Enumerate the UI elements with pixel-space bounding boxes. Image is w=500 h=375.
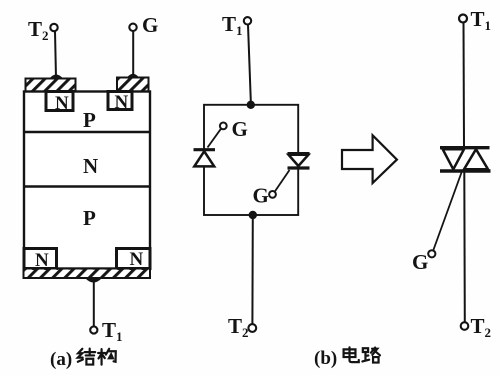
junction line N/P xyxy=(24,185,150,187)
triac symbol xyxy=(440,148,491,171)
caption glyph 电 xyxy=(344,347,359,362)
thyristor V2 (right, conducts down) xyxy=(288,154,310,168)
contact bump G xyxy=(127,74,139,78)
wire G to electrode xyxy=(132,31,134,77)
caption glyph 构 xyxy=(98,349,116,365)
svg-text:N: N xyxy=(130,249,144,270)
terminal T1 circle (symbol) xyxy=(459,15,467,23)
wire T2 to electrode xyxy=(55,32,56,79)
junction line P/N xyxy=(24,131,150,133)
svg-text:P: P xyxy=(83,108,96,132)
wire T1 to triac xyxy=(463,23,466,147)
circuit loop box xyxy=(204,105,298,215)
N-well bottom-left xyxy=(24,249,57,269)
terminal T2 circle (symbol) xyxy=(461,322,469,330)
gate G1 circle xyxy=(220,123,227,130)
wire node to T2 (b) xyxy=(251,215,253,324)
gate wire V2 xyxy=(275,170,290,191)
node junction top (b) xyxy=(247,101,255,109)
node junction bottom (b) xyxy=(249,211,257,219)
wire triac to T2 xyxy=(463,173,466,323)
terminal G circle xyxy=(129,24,136,31)
svg-text:T1: T1 xyxy=(471,7,492,33)
svg-text:T1: T1 xyxy=(102,318,123,344)
terminal T1 circle (b) xyxy=(244,17,251,24)
svg-text:G: G xyxy=(232,117,248,141)
svg-text:N: N xyxy=(83,154,98,178)
gate wire V1 xyxy=(208,129,222,148)
electrode top-right (hatched) xyxy=(117,78,149,93)
svg-text:T2: T2 xyxy=(28,17,49,43)
svg-text:N: N xyxy=(115,92,129,113)
svg-text:(b): (b) xyxy=(314,348,337,369)
terminal T2 circle (b) xyxy=(248,324,256,332)
N-well bottom-right xyxy=(117,249,151,269)
terminal T2 circle xyxy=(50,24,57,31)
structure body outline xyxy=(24,92,150,269)
thyristor V1 (left, conducts up) xyxy=(194,150,216,167)
gate G circle (symbol) xyxy=(428,250,435,257)
N-well top-left xyxy=(46,92,73,111)
svg-text:P: P xyxy=(83,206,96,230)
electrode bottom (hatched) xyxy=(24,269,151,279)
svg-text:G: G xyxy=(253,184,269,208)
caption glyph 结 xyxy=(78,349,95,365)
svg-text:T2: T2 xyxy=(471,314,492,340)
electrode top-left (hatched) xyxy=(26,79,76,93)
contact bump T2 xyxy=(50,75,64,79)
svg-text:T1: T1 xyxy=(222,12,243,38)
block arrow xyxy=(342,135,397,183)
caption glyph 路 xyxy=(362,348,380,363)
svg-text:(a): (a) xyxy=(50,349,72,370)
svg-text:T2: T2 xyxy=(228,314,249,340)
N-well top-right xyxy=(108,92,132,110)
svg-text:G: G xyxy=(412,250,428,274)
wire T1 to node (b) xyxy=(248,25,251,101)
wire electrode to T1 xyxy=(93,281,95,327)
gate wire triac xyxy=(433,173,461,251)
svg-text:N: N xyxy=(55,93,69,114)
contact bump T1 xyxy=(85,278,102,283)
gate G2 circle xyxy=(269,191,276,198)
svg-text:G: G xyxy=(142,13,158,37)
terminal T1 circle xyxy=(90,326,97,333)
